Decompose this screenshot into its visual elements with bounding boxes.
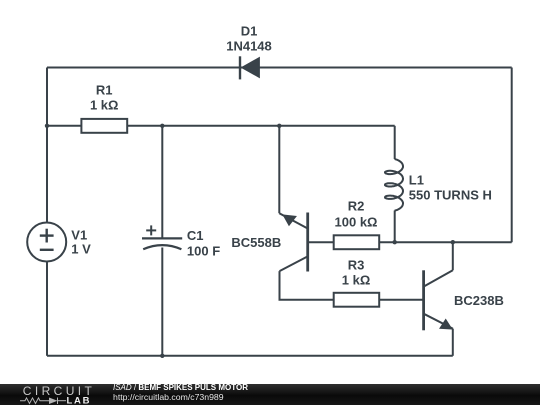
svg-text:R2: R2 [348, 199, 365, 214]
node dot C1-top [160, 124, 164, 128]
wire L1 riser upper [394, 126, 396, 159]
node dot L1-bottom [393, 240, 397, 244]
svg-text:100 kΩ: 100 kΩ [335, 215, 378, 230]
svg-text:R3: R3 [348, 258, 365, 273]
wire C1 riser top [161, 126, 163, 239]
node dot Q1-emitter-top [277, 124, 281, 128]
transistor Q1 BC558B [279, 213, 307, 272]
wire L1 riser lower [394, 211, 396, 243]
node dot R1-left [45, 124, 49, 128]
svg-text:1N4148: 1N4148 [226, 39, 272, 54]
wire Q2 emitter drop [452, 329, 454, 356]
footer url [113, 392, 224, 402]
footer title [113, 383, 248, 392]
wire R2 row right [379, 241, 512, 243]
svg-text:550 TURNS H: 550 TURNS H [409, 188, 492, 203]
wire Q1 emitter riser [278, 126, 280, 214]
capacitor C1 [142, 225, 182, 249]
wire C1 riser bottom [161, 248, 163, 356]
diode D1 [240, 56, 259, 79]
svg-text:C1: C1 [187, 228, 204, 243]
CircuitLab logo [0, 384, 96, 405]
transistor Q2 BC238B [424, 270, 453, 330]
svg-text:V1: V1 [71, 228, 87, 243]
source V1 [27, 223, 66, 262]
footer bar [0, 384, 540, 405]
resistor R2 [334, 235, 380, 249]
svg-text:R1: R1 [96, 83, 113, 98]
wire left rail lower [46, 262, 48, 356]
resistor R3 [334, 293, 380, 307]
svg-text:1 V: 1 V [71, 242, 91, 257]
node dot C1-bottom [160, 354, 164, 358]
svg-text:1 kΩ: 1 kΩ [342, 273, 371, 288]
wire R3 to Q2 base [379, 299, 423, 301]
svg-text:1 kΩ: 1 kΩ [90, 98, 119, 113]
wire R2 row left (base of Q1) [308, 241, 334, 243]
wire right rail [511, 68, 513, 243]
svg-text:LAB: LAB [67, 396, 92, 405]
svg-text:BC238B: BC238B [454, 293, 504, 308]
wire R1 row [47, 125, 81, 127]
wire top rail [47, 67, 512, 69]
svg-text:D1: D1 [241, 24, 258, 39]
wire bottom rail [47, 355, 453, 357]
resistor R1 [81, 119, 127, 133]
svg-text:BC558B: BC558B [231, 235, 281, 250]
wire Q2 collector riser [452, 242, 454, 270]
wire R1 to C1 to emitter-riser to L1 corner [127, 125, 395, 127]
svg-text:100 F: 100 F [187, 244, 220, 259]
node dot Q2-collector [451, 240, 455, 244]
inductor L1 [385, 159, 403, 211]
svg-text:L1: L1 [409, 173, 424, 188]
wire Q1 collector drop [280, 271, 334, 300]
wire left rail upper [46, 68, 48, 223]
